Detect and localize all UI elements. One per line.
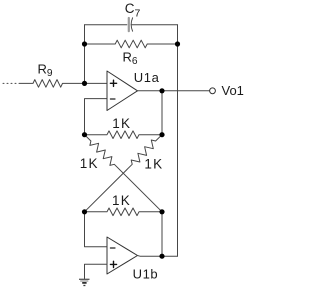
svg-text:U1b: U1b [133,267,159,282]
resistor R6 [85,40,178,48]
op-amp U1a plus symbol [110,80,116,86]
resistor R9 [19,80,85,88]
node Vo1 terminal [210,88,216,94]
svg-text:1K: 1K [112,193,131,208]
wire left down to U1b inverting input [85,212,108,247]
svg-text:1K: 1K [112,116,131,131]
wire output U1a to Vo1 [138,90,210,92]
svg-text:1K: 1K [144,156,163,171]
op-amp U1b minus symbol [110,247,115,249]
wire left rail vertical [84,25,86,84]
wire right rail vertical [177,25,179,257]
svg-text:C7: C7 [125,1,141,19]
op-amp U1b [107,237,138,274]
wire top rail right segment (from capacitor) [131,24,177,26]
ground [79,279,90,285]
op-amp U1a minus symbol [110,98,115,100]
svg-text:R6: R6 [123,50,138,68]
svg-text:U1a: U1a [134,70,160,85]
wire U1a output down [161,91,163,135]
wire noninverting input U1a [85,82,108,84]
wire U1b output to right rail [138,255,178,258]
wire top rail left segment (to capacitor) [85,24,127,26]
wire right down from bottom 1K [161,212,163,256]
resistor 1K right diagonal [85,135,163,212]
capacitor C7 [128,18,130,31]
resistor 1K middle horizontal [85,131,163,139]
resistor 1K bottom horizontal [85,208,163,216]
wire inverting input U1a [85,99,108,135]
op-amp U1b plus symbol [110,261,116,267]
node junction dots [82,41,180,258]
svg-text:Vo1: Vo1 [222,83,244,98]
svg-text:R9: R9 [38,62,53,80]
wire U1b noninverting input to ground [85,264,108,279]
op-amp U1a [107,71,138,111]
svg-text:1K: 1K [80,156,99,171]
wire input dotted lead [3,82,17,84]
resistor 1K left diagonal [85,135,163,212]
